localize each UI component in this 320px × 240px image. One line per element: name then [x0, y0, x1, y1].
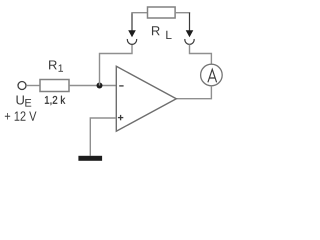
socket connector left: [127, 39, 136, 44]
label U_E: [17, 95, 32, 106]
node junction dot: [97, 83, 103, 89]
label RL: [152, 26, 172, 39]
ground: [78, 156, 102, 161]
wire R1 to op-amp inverting input: [69, 85, 116, 87]
wire RL right lead: [175, 12, 190, 14]
wire input terminal to R1: [26, 85, 40, 87]
wire node up: [100, 44, 133, 85]
resistor R1: [40, 80, 69, 92]
value label 1,2 k: [45, 96, 65, 105]
op-amp inverting pin minus: [119, 85, 123, 87]
input terminal circle: [18, 82, 26, 90]
label R1: [49, 60, 63, 71]
wire non-inverting input to ground: [90, 118, 116, 156]
ammeter A: [201, 64, 223, 86]
wire RL left lead: [131, 12, 147, 14]
plug arrow left: [128, 13, 136, 38]
wire socket right to ammeter: [190, 44, 212, 64]
socket connector right: [185, 39, 194, 44]
label + 12 V: [5, 111, 37, 120]
wire ammeter to op-amp output: [176, 86, 211, 99]
plug arrow right: [186, 13, 194, 38]
op-amp U1: [116, 66, 176, 131]
resistor RL: [148, 7, 176, 18]
op-amp non-inverting pin plus: [118, 115, 123, 120]
